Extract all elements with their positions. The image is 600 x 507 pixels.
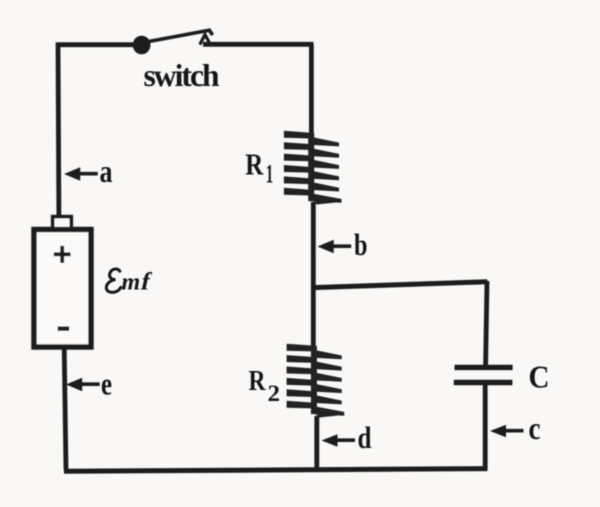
wire top-right horizontal [203,42,314,47]
wire branch top horizontal [313,282,487,288]
label Emf script E [106,269,120,292]
svg-text:R: R [245,147,263,182]
svg-text:c: c [529,410,541,446]
capacitor C bottom plate [454,380,513,385]
svg-text:e: e [101,366,112,402]
wire left vertical upper [56,42,62,218]
wire right vertical above capacitor [486,281,487,366]
svg-text:d: d [358,420,372,455]
svg-text:2: 2 [268,381,281,406]
svg-text:1: 1 [266,160,274,189]
wire bottom horizontal [64,469,488,472]
switch SW lever [146,30,213,42]
arrow d [322,434,356,447]
battery plus sign [54,246,71,263]
switch SW contact [200,35,211,45]
arrow e [66,378,100,392]
wire right vertical upper (to R1) [309,44,314,141]
arrow b [318,240,352,254]
arrow a [64,167,98,181]
wire R2 to bottom [314,416,319,469]
svg-text:a: a [100,153,113,189]
battery minus sign [58,326,70,330]
svg-text:m: m [122,270,141,296]
battery B1 terminal [53,217,72,230]
svg-text:b: b [354,227,368,262]
svg-text:R: R [249,366,267,397]
wire right vertical below capacitor [483,384,488,470]
resistor R2 coil [287,344,345,418]
svg-text:switch: switch [144,58,220,93]
svg-text:C: C [529,359,550,395]
capacitor C top plate [455,365,513,370]
arrow c [490,425,524,438]
wire middle vertical R1 to R2 [311,202,316,346]
switch SW pivot dot [133,36,151,55]
battery B1 body [34,230,91,348]
wire left vertical lower [64,347,66,470]
resistor R1 coil [284,131,342,205]
wire top-left horizontal [58,42,137,47]
